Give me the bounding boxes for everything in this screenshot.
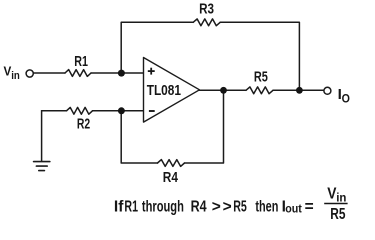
svg-text:R5: R5 [254,69,268,86]
svg-text:R5: R5 [233,198,247,215]
svg-text:R1: R1 [124,198,138,215]
svg-text:=: = [305,198,314,215]
svg-text:out: out [285,202,302,216]
svg-text:in: in [11,70,20,82]
svg-text:R3: R3 [199,0,214,17]
svg-text:through: through [142,198,184,215]
svg-text:>: > [223,198,232,215]
svg-text:R5: R5 [330,206,346,223]
svg-text:R1: R1 [74,53,88,70]
svg-text:R4: R4 [163,169,179,186]
svg-text:If: If [114,198,124,215]
svg-text:O: O [342,91,350,105]
svg-text:R2: R2 [77,116,90,133]
svg-text:TL081: TL081 [147,83,181,99]
svg-text:in: in [336,192,346,204]
svg-text:R4: R4 [191,198,207,215]
svg-text:>: > [212,198,221,215]
svg-text:then: then [255,198,278,215]
